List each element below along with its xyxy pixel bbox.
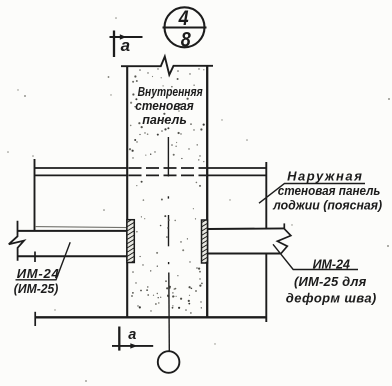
leader line to right slab label <box>273 244 358 269</box>
right slab break (zigzag end) <box>277 229 290 254</box>
svg-text:ИМ-24: ИМ-24 <box>17 266 60 281</box>
left loggia slab bottom edge <box>18 255 128 257</box>
right loggia slab top edge <box>208 227 284 230</box>
hidden joint line upper (dashed through panel) <box>129 167 207 169</box>
axis circle (bottom) <box>158 351 180 373</box>
inner wall panel left edge <box>126 66 128 317</box>
joint line upper-right (solid) <box>208 167 267 169</box>
joint line upper-left (solid) <box>35 167 128 169</box>
label: Внутренняя стеновая панель <box>135 85 202 127</box>
hidden joint line lower (dashed through panel) <box>129 174 207 176</box>
section mark a (bottom) <box>112 327 153 351</box>
support tick on left slab <box>34 252 36 263</box>
svg-text:Внутренняя: Внутренняя <box>138 85 203 99</box>
floor line (bottom) <box>35 316 267 318</box>
svg-text:(ИМ-25): (ИМ-25) <box>14 282 59 296</box>
joint line lower-left (solid) <box>35 174 128 176</box>
section mark a (top) <box>110 31 143 58</box>
right wall edge lower (vertical) <box>265 253 267 322</box>
svg-text:ИМ-24: ИМ-24 <box>313 256 350 271</box>
svg-text:4: 4 <box>178 7 189 31</box>
svg-text:лоджии (поясная): лоджии (поясная) <box>272 198 382 212</box>
svg-text:a: a <box>121 36 130 55</box>
faint slab line left <box>35 227 127 228</box>
left slab break (zigzag end) <box>9 221 24 261</box>
inner panel top edge with break <box>121 57 213 75</box>
svg-text:a: a <box>128 327 136 343</box>
right wall edge upper (vertical) <box>265 162 267 229</box>
svg-text:стеновая панель: стеновая панель <box>278 184 381 199</box>
left wall edge (vertical) <box>34 159 36 231</box>
detail number circle 4/8 <box>163 7 207 47</box>
right slab break tick <box>283 223 285 228</box>
svg-text:Наружная: Наружная <box>287 168 363 183</box>
svg-text:деформ шва): деформ шва) <box>286 290 377 305</box>
left loggia slab top edge <box>18 230 128 232</box>
right loggia slab bottom edge <box>208 253 281 255</box>
leader line to outer panel label <box>259 184 365 204</box>
joint line lower-right (solid) <box>208 174 267 176</box>
svg-text:8: 8 <box>181 28 191 52</box>
svg-text:(ИМ-25 для: (ИМ-25 для <box>294 274 367 289</box>
inner wall panel right edge <box>206 66 208 317</box>
leader line to left slab label <box>16 242 71 279</box>
tick at left end of floor line <box>34 312 36 326</box>
joint sealant left (hatched strip) <box>127 220 134 263</box>
joint sealant right (hatched strip) <box>202 220 208 263</box>
panel centreline (dash-dot) <box>167 137 170 351</box>
